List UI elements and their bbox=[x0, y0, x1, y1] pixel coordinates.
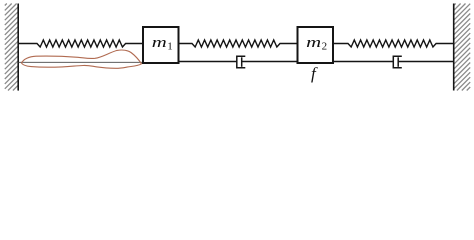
svg-text:2: 2 bbox=[322, 41, 328, 53]
svg-text:m: m bbox=[306, 35, 321, 51]
svg-text:1: 1 bbox=[167, 41, 173, 53]
svg-text:m: m bbox=[152, 35, 167, 51]
